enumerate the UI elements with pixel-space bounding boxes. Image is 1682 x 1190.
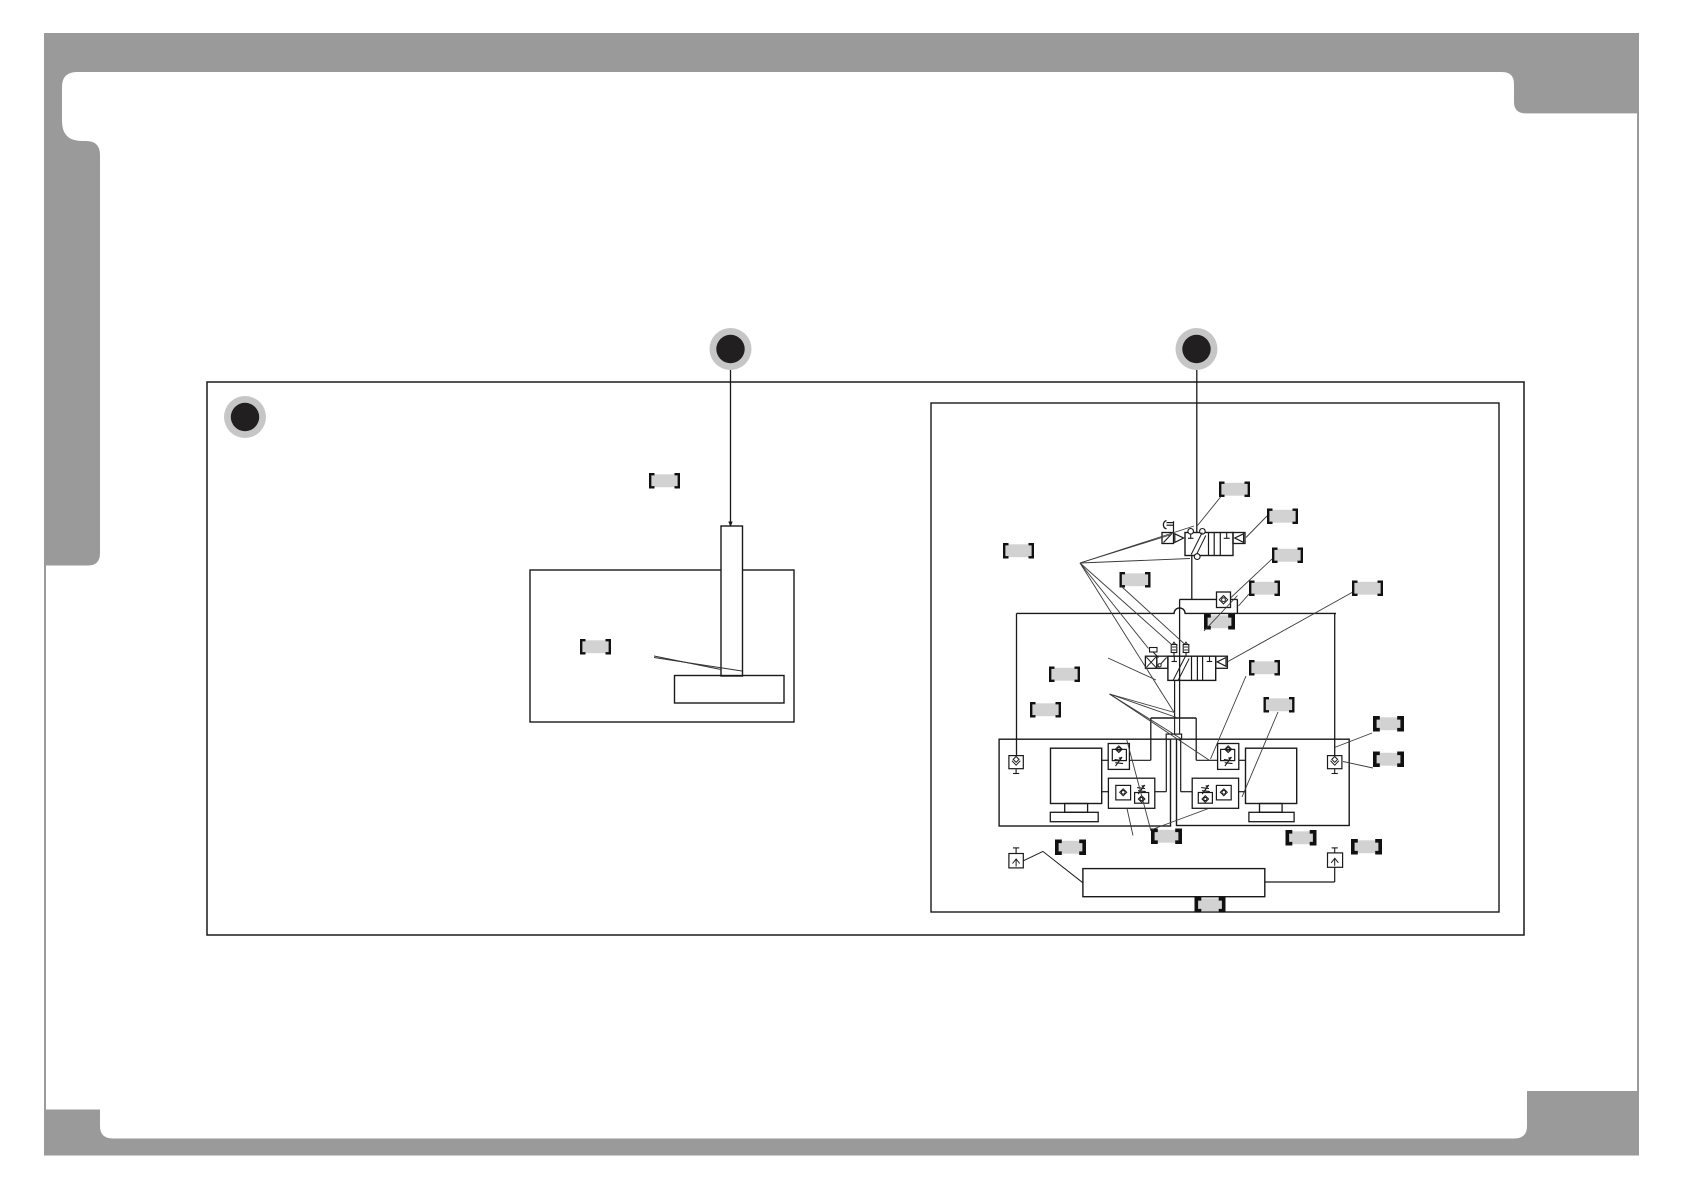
wire: supply drop through inner box to manifold [1179,599,1181,718]
wire: drop line from bullet 2 to cylinder [730,370,732,523]
top valve: bottom port circle [1194,554,1200,560]
leader lines [1080,497,1373,836]
flow control FC-L2 [1108,778,1154,808]
wire: tank to BV-R [1265,881,1335,883]
leader lines to cylinder bottom [654,656,721,670]
label L11 [1031,703,1060,716]
pedestal SQ-L [1065,804,1088,813]
valve U2: top-left flag [1150,648,1158,653]
left assembly box [999,739,1170,826]
valve U2: T port marks [1173,656,1175,661]
bullet 1 (section marker left) [224,396,266,438]
bullet 3 (above right diagram) [1176,328,1218,370]
manifold rectangle [1151,717,1196,719]
top valve: left triangle [1175,534,1184,543]
label L4 [1121,573,1150,586]
big square SQ-L [1051,748,1102,803]
label L9 [1050,668,1079,681]
flow control FC-R2 [1192,778,1238,808]
top valve: crossed flow lines [1191,533,1202,555]
label box left-top [650,474,679,487]
valve U2: spring symbols [1171,645,1177,653]
inner box right edge down to check valve [1334,613,1336,755]
pedestal SQ-R [1260,804,1283,813]
label L12 [1265,698,1294,711]
label L5 [1273,549,1302,562]
top valve: right end box with triangle [1233,533,1245,544]
valve U2: left solenoid box [1145,656,1156,668]
top valve: left pilot box [1162,533,1174,544]
label L17 [1287,831,1314,844]
right assembly box [1177,739,1350,825]
top valve: main body [1185,533,1233,556]
big outer rectangle [207,382,1524,935]
label L6 [1250,582,1279,595]
check valve CV-L [1009,756,1023,769]
manifold small box [1166,734,1181,739]
base plate under cylinder [675,676,785,704]
label L18 [1353,840,1380,853]
wire: small box to right flow control [1180,739,1182,792]
tank (long rectangle) [1083,869,1265,897]
label box left-inner [581,640,610,653]
right diagram outer box [931,403,1499,912]
channel rect top/right edges [1180,598,1238,600]
inner box left edge down to check valve [1016,613,1018,755]
wires: SQ to flow controls [1102,759,1109,761]
label L19 (below tank) [1196,898,1223,911]
wire: small box to left flow control [1165,739,1167,792]
label L15 [1057,841,1084,854]
label L16 (bottom mid) [1153,830,1180,843]
bullet 2 (above left diagram) [710,328,752,370]
wire: BV-L zigzag to tank [1023,851,1083,882]
left diagram enclosure box [530,570,794,722]
cylinder (vertical bar) [721,526,743,676]
valve U2: main body [1168,656,1216,680]
big square SQ-R [1246,748,1297,803]
check valve CV-R [1328,756,1342,769]
label L8 (channel) [1206,615,1233,628]
label L3 [1004,544,1033,557]
valve U2: second left box [1157,656,1168,668]
top directional valve U1: pilot cap [1163,521,1166,529]
wire: supply drop from bullet 3 to top valve [1196,370,1198,533]
label L10 [1250,661,1279,674]
wire: valve U2 bottom to manifold [1174,680,1176,718]
label L13 [1375,717,1402,730]
label L2 (right of top valve) [1268,510,1297,523]
bottom valve BV-R [1332,847,1338,849]
wire: top valve bottom port down to channel [1191,556,1193,600]
valve U2: crossed flow lines [1173,657,1185,681]
bottom valve BV-L [1013,847,1019,849]
flow control FC-R1 [1218,744,1239,770]
flow control FC-L1 [1108,744,1129,770]
label L14 [1375,753,1402,766]
label L1 (above top valve) [1220,483,1249,496]
wires inside manifold down to small box [1174,718,1176,734]
top valve: port circles and T marks [1188,529,1194,535]
valve U2: right end box with triangle [1216,656,1228,668]
inner box top edge with jump arc [1017,608,1337,614]
label L7 [1353,582,1382,595]
check valve square [1217,592,1231,608]
